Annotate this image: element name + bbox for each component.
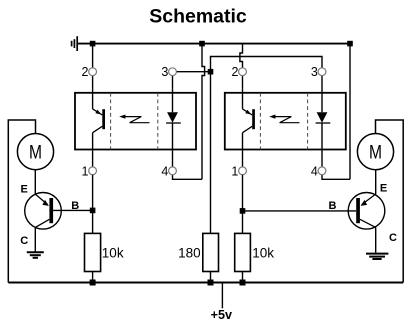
wire: mid vertical x202 with jog (rail to pin4-left jog) xyxy=(202,44,205,180)
wire: R3 to bottom rail xyxy=(242,272,244,283)
motor M2 circle xyxy=(357,134,393,170)
wire: pin4-right jog xyxy=(322,175,350,180)
wire: +5v stub xyxy=(221,283,223,309)
wire: R1 to bottom rail xyxy=(92,272,94,283)
wire: right vertical x350 (rail to pin4-right jog) xyxy=(349,44,351,180)
optocoupler U2 box xyxy=(225,93,346,150)
node: junction pin3-left T xyxy=(208,69,214,75)
svg-text:C: C xyxy=(20,235,28,247)
U1 LED D1 xyxy=(166,76,181,167)
wire: x210 vertical down to 180 resistor xyxy=(210,72,212,234)
wire: right rail loop xyxy=(376,120,404,283)
pin 4 circle U1 xyxy=(169,167,177,175)
svg-text:4: 4 xyxy=(311,164,318,178)
U2 LED D2 xyxy=(316,76,331,167)
svg-text:3: 3 xyxy=(161,65,168,79)
node: bottom rail / R1 xyxy=(90,280,96,286)
wire: motor M1 to Q1 emitter xyxy=(34,170,36,194)
svg-text:B: B xyxy=(71,200,79,212)
svg-text:10k: 10k xyxy=(252,245,274,260)
svg-text:M: M xyxy=(369,142,382,164)
wire: pin4-left jog xyxy=(173,175,203,180)
pin 1 circle U1 xyxy=(89,167,97,175)
svg-text:1: 1 xyxy=(231,164,238,178)
wire: anode rail y56 linking pin3-left and pin3-right xyxy=(211,57,323,72)
ground (below Q2) xyxy=(366,254,388,259)
svg-text:4: 4 xyxy=(161,164,168,178)
svg-text:B: B xyxy=(329,200,337,212)
pin 3 circle U2 xyxy=(318,68,326,76)
resistor R2 180 xyxy=(203,233,219,271)
svg-text:2: 2 xyxy=(231,65,238,79)
U2 light arrow xyxy=(274,117,300,123)
node: junction top rail / right vertical xyxy=(347,41,353,47)
wire: base wire left xyxy=(53,209,93,211)
wire: pin2-left to rail xyxy=(92,44,94,68)
pin 2 circle U2 xyxy=(239,68,247,76)
node: bottom rail / R2 xyxy=(208,280,214,286)
ground (top-left, rotated) xyxy=(72,36,78,51)
wire: motor M2 to Q2 emitter xyxy=(375,170,377,194)
wire: pin3-left to junction xyxy=(176,71,210,73)
pin 2 circle U1 xyxy=(89,68,97,76)
svg-text:180: 180 xyxy=(178,245,201,260)
svg-text:3: 3 xyxy=(311,65,318,79)
svg-text:E: E xyxy=(21,183,28,195)
wire: R2 to bottom rail xyxy=(210,272,212,283)
svg-text:2: 2 xyxy=(82,65,89,79)
wire: pin1-left down to base junction and resistor xyxy=(92,175,94,234)
U2 phototransistor xyxy=(243,76,255,167)
svg-text:10k: 10k xyxy=(102,245,124,260)
U1 dashed separator left xyxy=(110,93,112,150)
svg-text:1: 1 xyxy=(81,164,88,178)
wire: bottom +5v rail xyxy=(8,282,403,284)
svg-text:M: M xyxy=(29,142,42,164)
node: junction top rail / pin2-left xyxy=(90,41,96,47)
pin 3 circle U1 xyxy=(169,68,177,76)
wire: base wire right xyxy=(243,210,357,212)
U1 light arrow xyxy=(124,117,150,123)
wire: pin1-right down to base junction and resistor xyxy=(242,175,244,234)
wire: Q2 collector down xyxy=(375,227,377,252)
U2 dashed separator left xyxy=(259,93,261,150)
resistor R1 10k left xyxy=(85,233,101,271)
node: junction base-left xyxy=(90,208,96,214)
node: bottom rail / R3 xyxy=(240,280,246,286)
node: junction base-right xyxy=(240,208,246,214)
ground (below Q1) xyxy=(27,252,44,258)
resistor R3 10k right xyxy=(235,233,251,271)
pin 1 circle U2 xyxy=(239,167,247,175)
transistor Q2 xyxy=(348,193,385,230)
wire: pin2-right to rail with jog xyxy=(240,44,243,68)
U1 phototransistor xyxy=(93,76,105,167)
motor M1 circle xyxy=(17,134,53,170)
U1 dashed separator right xyxy=(157,93,159,150)
wire: Q1 collector down xyxy=(34,227,36,251)
svg-text:Schematic: Schematic xyxy=(149,6,247,28)
svg-text:C: C xyxy=(389,232,397,244)
pin 4 circle U2 xyxy=(318,167,326,175)
optocoupler U1 box xyxy=(75,93,196,150)
U2 dashed separator right xyxy=(307,93,309,150)
wire: top ground rail xyxy=(77,43,351,45)
transistor Q1 xyxy=(25,193,62,230)
svg-text:+5v: +5v xyxy=(211,308,232,322)
node: junction top rail / mid vertical xyxy=(199,41,205,47)
svg-text:E: E xyxy=(380,183,387,195)
wire: left rail loop xyxy=(8,120,35,283)
